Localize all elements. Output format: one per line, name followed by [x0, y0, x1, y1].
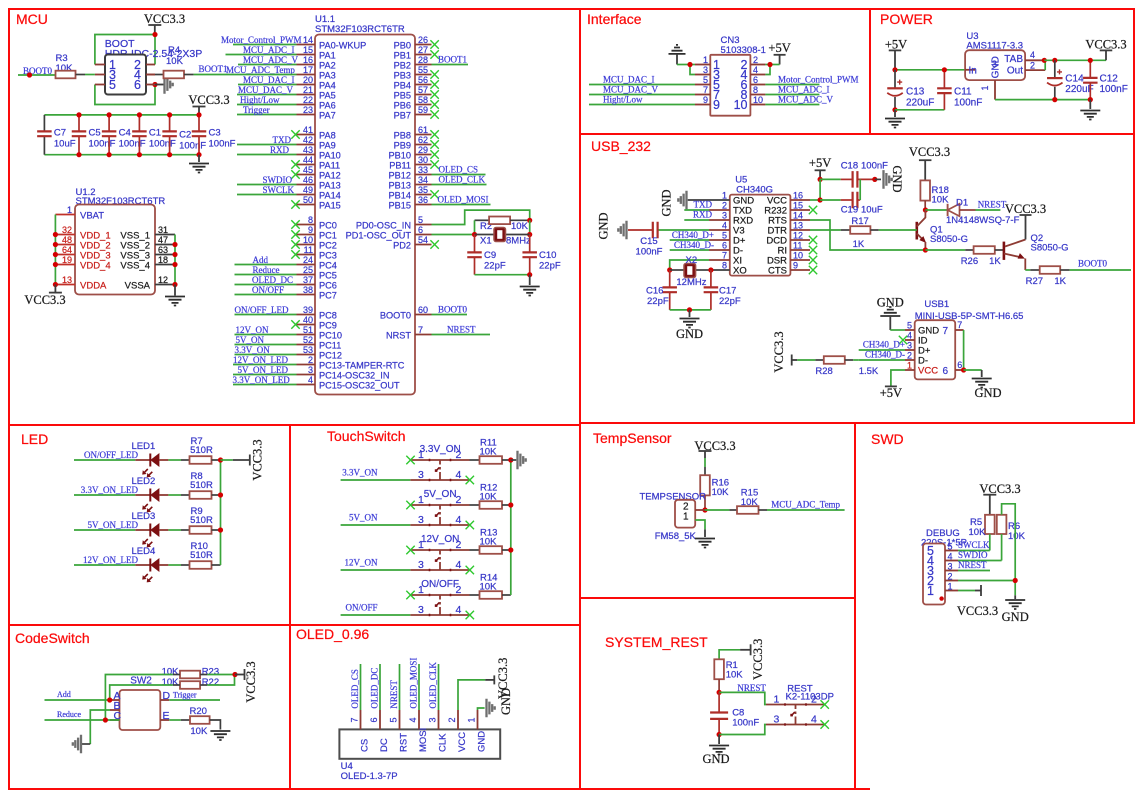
junction R13 — [508, 547, 513, 552]
svg-text:MCU_ADC_I: MCU_ADC_I — [243, 45, 295, 55]
svg-text:+5V: +5V — [880, 386, 902, 400]
svg-text:PB6: PB6 — [394, 101, 411, 111]
svg-text:OLED_CS: OLED_CS — [439, 165, 479, 175]
svg-text:10K: 10K — [480, 492, 498, 503]
svg-text:PB4: PB4 — [394, 81, 411, 91]
svg-text:CLK: CLK — [438, 733, 449, 752]
svg-text:100nF: 100nF — [119, 139, 146, 150]
svg-text:MCU_ADC_Temp: MCU_ADC_Temp — [226, 65, 295, 75]
junction C14 top — [1052, 58, 1057, 63]
svg-text:LED2: LED2 — [132, 476, 156, 487]
svg-text:1: 1 — [774, 694, 780, 706]
svg-text:46: 46 — [303, 175, 313, 185]
U4 pin 6 DC — [379, 710, 381, 729]
resistor R11 10K — [470, 459, 480, 461]
svg-text:PC15-OSC32_OUT: PC15-OSC32_OUT — [319, 381, 400, 391]
svg-text:MCU_DAC_I: MCU_DAC_I — [603, 75, 655, 85]
svg-text:40: 40 — [303, 315, 313, 325]
svg-text:OLED_MOSI: OLED_MOSI — [408, 658, 418, 709]
svg-text:R28: R28 — [815, 366, 832, 377]
svg-text:SWCLK: SWCLK — [958, 540, 990, 550]
wire CN3 +5V to pin2/4 — [765, 64, 779, 66]
U1.1 pin 30 PB11 — [415, 164, 432, 166]
net NREST SWD — [958, 570, 990, 572]
section LED — [9, 425, 290, 625]
junction C5 bottom — [76, 152, 81, 157]
svg-text:C19: C19 — [841, 205, 858, 216]
U5 pin 1 GND — [709, 199, 730, 201]
DEBUG pin 4 — [945, 560, 958, 562]
svg-text:220uF: 220uF — [906, 98, 934, 109]
svg-text:10K: 10K — [932, 195, 950, 206]
svg-text:61: 61 — [418, 125, 428, 135]
svg-text:7: 7 — [943, 326, 949, 337]
svg-text:VCC3.3: VCC3.3 — [24, 293, 65, 307]
svg-text:C9: C9 — [484, 250, 496, 261]
svg-text:OLED_CLK: OLED_CLK — [428, 662, 438, 709]
resistor R14 10K — [470, 594, 480, 596]
wire U1.2 VDD rail — [54, 215, 56, 285]
power VCC3.3 DEBUG pin1 — [980, 585, 982, 596]
U1.1 pin 20 PA4 — [297, 84, 316, 86]
svg-text:PA2: PA2 — [319, 61, 336, 71]
junction C14 bottom — [1052, 97, 1057, 102]
net 12V_ON TouchSwitch — [341, 569, 411, 571]
net OLED_DC U4 — [379, 664, 381, 710]
junction C3 bottom — [196, 152, 201, 157]
svg-text:52: 52 — [303, 335, 313, 345]
IC U4 OLED-1.3-7P — [339, 729, 500, 758]
svg-text:32: 32 — [62, 225, 72, 235]
U5 pin 14 RTS — [790, 219, 810, 221]
svg-text:6: 6 — [722, 241, 727, 251]
net SWCLK — [958, 550, 990, 552]
svg-text:3: 3 — [948, 562, 953, 572]
svg-text:12V_ON: 12V_ON — [236, 325, 269, 335]
svg-text:10K: 10K — [712, 487, 730, 498]
pin1 mark DEBUG — [939, 596, 943, 600]
junction C4 bottom — [107, 152, 112, 157]
resistor R16 10K — [700, 475, 710, 495]
U1.2 pin 47 VSS_2 — [155, 244, 175, 246]
svg-text:Reduce: Reduce — [57, 710, 81, 719]
wire TouchSwitch gnd rail — [510, 460, 512, 595]
no-connect U5 pin 11 — [809, 246, 817, 254]
svg-text:VSSA: VSSA — [125, 281, 151, 292]
svg-text:ON/OFF: ON/OFF — [421, 579, 459, 590]
net CH340_D- — [670, 249, 709, 251]
svg-text:PB14: PB14 — [389, 191, 411, 201]
ground TempSensor — [704, 529, 706, 537]
svg-text:PC2: PC2 — [319, 241, 337, 251]
U5 pin 13 DTR — [790, 229, 810, 231]
U1.1 pin 39 PC8 — [297, 314, 316, 316]
svg-text:PB1: PB1 — [394, 51, 411, 61]
svg-text:1: 1 — [683, 512, 689, 523]
svg-text:35: 35 — [418, 185, 428, 195]
svg-text:CH340_D-: CH340_D- — [674, 240, 714, 250]
net ON/OFF TouchSwitch — [341, 614, 411, 616]
svg-text:7: 7 — [957, 320, 962, 330]
net Trigger — [169, 699, 220, 701]
svg-text:8MHz: 8MHz — [506, 236, 531, 247]
svg-text:10K: 10K — [1008, 531, 1026, 542]
junction VDD rail — [53, 282, 58, 287]
svg-text:3.3V_ON: 3.3V_ON — [235, 345, 271, 355]
svg-text:Add: Add — [253, 255, 269, 265]
svg-text:PA9: PA9 — [319, 141, 336, 151]
wire R2 right to X1 right — [529, 220, 531, 234]
svg-text:PC9: PC9 — [319, 321, 337, 331]
junction VDD rail — [53, 252, 58, 257]
capacitor C15 100nF — [658, 229, 709, 231]
svg-text:VSS_4: VSS_4 — [120, 261, 150, 272]
svg-text:53: 53 — [303, 345, 313, 355]
svg-text:PA0-WKUP: PA0-WKUP — [319, 41, 366, 51]
SW2 pin A — [110, 699, 120, 701]
svg-text:3: 3 — [774, 714, 780, 726]
resistor R5 10K — [985, 515, 995, 534]
resistor R7 510R — [168, 459, 181, 461]
svg-text:5: 5 — [703, 75, 708, 85]
U1.2 pin 19 VDD_4 — [55, 264, 75, 266]
wire R28 to D- — [853, 359, 859, 361]
svg-text:CTS: CTS — [768, 266, 787, 277]
svg-text:PB5: PB5 — [394, 91, 411, 101]
net BOOT0 Q2 — [1070, 269, 1131, 271]
svg-text:K2-1103DP: K2-1103DP — [786, 692, 834, 703]
svg-text:PB9: PB9 — [394, 141, 411, 151]
net OLED_MOSI U4 — [418, 664, 420, 710]
ground arrow U5 pin1 — [688, 199, 709, 201]
junction VDD rail — [53, 232, 58, 237]
svg-text:100nF: 100nF — [209, 139, 236, 150]
U1.1 pin 52 PC11 — [297, 344, 316, 346]
U5 pin 10 DSR — [790, 259, 810, 261]
svg-text:3.3V_ON_LED: 3.3V_ON_LED — [233, 375, 291, 385]
U4 pin 7 CS — [360, 710, 362, 729]
svg-text:ON/OFF: ON/OFF — [252, 285, 284, 295]
junction C1 bottom — [137, 152, 142, 157]
svg-text:C4: C4 — [119, 128, 131, 139]
svg-text:C17: C17 — [719, 286, 736, 297]
svg-text:VCC3.3: VCC3.3 — [251, 439, 265, 480]
svg-text:4: 4 — [948, 552, 953, 562]
U1.1 pin 8 PC0 — [297, 224, 316, 226]
U3 pin 1 GND — [994, 80, 996, 100]
svg-text:RXD: RXD — [270, 145, 290, 155]
wire R6 top to rail — [1002, 504, 1016, 596]
junction U3 In — [972, 67, 977, 72]
svg-text:5V_ON_LED: 5V_ON_LED — [238, 365, 289, 375]
svg-text:4: 4 — [722, 221, 727, 231]
svg-text:51: 51 — [303, 325, 313, 335]
CN3 pin 2 — [750, 64, 765, 66]
U1.1 pin 25 PC5 — [297, 274, 316, 276]
resistor R13 10K — [470, 549, 480, 551]
junction USB1 pin6 — [961, 367, 966, 372]
svg-text:C12: C12 — [1100, 74, 1119, 85]
svg-text:8: 8 — [308, 215, 313, 225]
resistor R20 10K — [169, 719, 181, 721]
net Add — [45, 699, 110, 701]
junction X1 left — [472, 232, 477, 237]
svg-text:POWER: POWER — [880, 11, 933, 27]
U1.1 pin 55 PB3 — [415, 74, 432, 76]
svg-text:510R: 510R — [190, 515, 213, 526]
ground U1.2 — [174, 285, 176, 296]
svg-text:2: 2 — [753, 55, 758, 65]
junction R12 — [508, 502, 513, 507]
wire X1 bottom — [475, 274, 530, 276]
U1.1 pin 35 PB14 — [415, 194, 432, 196]
svg-text:3: 3 — [428, 717, 438, 722]
wire R6 bottom — [1001, 534, 1003, 561]
U1.1 pin 15 PA1 — [297, 54, 316, 56]
resistor R28 1.5K — [815, 359, 823, 361]
svg-text:5: 5 — [948, 542, 953, 552]
svg-text:6: 6 — [753, 75, 758, 85]
svg-text:7: 7 — [418, 325, 423, 335]
svg-text:10K: 10K — [726, 670, 744, 681]
power VCC3.3 U4 — [493, 675, 495, 684]
ground X1 — [529, 275, 531, 285]
net MCU_DAC_V CN3 left — [589, 94, 695, 96]
U1.1 pin 37 PC6 — [297, 284, 316, 286]
svg-text:Reduce: Reduce — [253, 265, 280, 275]
svg-text:PC0: PC0 — [319, 221, 337, 231]
svg-text:C18: C18 — [841, 161, 858, 172]
no-connect U5 pin 15 — [809, 206, 817, 214]
svg-text:GND: GND — [499, 688, 513, 715]
power VCC3.3 LED — [249, 455, 251, 466]
junction C18 right — [872, 177, 877, 182]
svg-text:X2: X2 — [686, 255, 698, 266]
svg-text:VCC3.3: VCC3.3 — [751, 639, 765, 680]
no-connect 5V_ON pin4 — [466, 521, 474, 529]
svg-text:Out: Out — [1007, 65, 1023, 76]
svg-text:5: 5 — [418, 215, 423, 225]
junction +5V C18 — [818, 177, 823, 182]
svg-text:CH340_D-: CH340_D- — [865, 350, 905, 360]
U1.2 pin 18 VSS_4 — [155, 264, 175, 266]
U1.1 pin 10 PC2 — [297, 244, 316, 246]
svg-text:VBAT: VBAT — [80, 211, 104, 222]
U1.1 pin 40 PC9 — [297, 324, 316, 326]
svg-text:PC4: PC4 — [319, 261, 337, 271]
net SWDIO — [958, 560, 1002, 562]
svg-text:PA15: PA15 — [319, 201, 341, 211]
ground arrow SW2 — [73, 735, 81, 754]
svg-text:16: 16 — [793, 191, 803, 201]
svg-text:9: 9 — [713, 98, 720, 112]
svg-text:4: 4 — [456, 469, 462, 481]
svg-text:11: 11 — [793, 241, 802, 251]
svg-text:510R: 510R — [190, 445, 213, 456]
svg-text:R4: R4 — [168, 45, 180, 56]
svg-text:VCC3.3: VCC3.3 — [957, 604, 998, 618]
junction VSS rail — [172, 252, 177, 257]
svg-text:33: 33 — [418, 165, 428, 175]
svg-text:63: 63 — [158, 245, 168, 255]
svg-text:100nF: 100nF — [636, 247, 663, 258]
svg-text:PB13: PB13 — [389, 181, 411, 191]
svg-text:PC6: PC6 — [319, 281, 337, 291]
svg-text:PC8: PC8 — [319, 311, 337, 321]
svg-text:PB8: PB8 — [394, 131, 411, 141]
svg-text:R27: R27 — [1026, 276, 1043, 287]
U1.1 pin 26 PB0 — [415, 44, 432, 46]
svg-text:1: 1 — [948, 582, 953, 592]
U1.1 pin 53 PC12 — [297, 354, 316, 356]
svg-text:MCU_ADC_Temp: MCU_ADC_Temp — [771, 500, 840, 510]
svg-text:Interface: Interface — [587, 11, 642, 27]
junction C5 top — [76, 112, 81, 117]
svg-text:5V_ON: 5V_ON — [236, 335, 265, 345]
resistor R18 10K — [920, 180, 930, 200]
section POWER — [870, 9, 1134, 134]
svg-text:Motor_Control_PWM: Motor_Control_PWM — [221, 35, 302, 45]
U1.1 pin 51 PC10 — [297, 334, 316, 336]
svg-text:PC12: PC12 — [319, 351, 342, 361]
svg-text:23: 23 — [303, 105, 313, 115]
junction VDD rail — [53, 242, 58, 247]
svg-text:9: 9 — [308, 225, 313, 235]
wire BOOT header top loop — [95, 35, 155, 65]
resistor R27 1K — [1025, 269, 1030, 271]
U1.1 pin 4 PC15-OSC32_OUT — [297, 384, 316, 386]
ground arrow C15 — [618, 221, 626, 240]
net MCU_ADC_Temp — [767, 509, 845, 511]
svg-text:VCC3.3: VCC3.3 — [1005, 202, 1046, 216]
net Hight/Low CN3 left — [589, 104, 695, 106]
junction R16 TEMPSENSOR — [702, 507, 707, 512]
svg-text:PC11: PC11 — [319, 341, 341, 351]
U4 pin 3 CLK — [438, 710, 440, 729]
section SYSTEM_REST — [580, 598, 855, 789]
junction X1 ground — [527, 272, 532, 277]
svg-text:PB10: PB10 — [389, 151, 411, 161]
DEBUG pin 5 — [945, 550, 958, 552]
svg-text:R23: R23 — [202, 667, 219, 678]
svg-text:TXD: TXD — [273, 135, 292, 145]
svg-text:X1: X1 — [480, 236, 492, 247]
svg-text:27: 27 — [418, 45, 428, 55]
svg-text:+5V: +5V — [809, 156, 831, 170]
junction C13 — [892, 67, 897, 72]
svg-text:10K: 10K — [480, 537, 498, 548]
svg-text:13: 13 — [62, 275, 72, 285]
ground C13 — [894, 110, 896, 117]
svg-text:2: 2 — [722, 201, 727, 211]
U1.1 pin 56 PB4 — [415, 84, 432, 86]
svg-text:TempSensor: TempSensor — [593, 430, 672, 446]
svg-text:PA1: PA1 — [319, 51, 336, 61]
U1.1 pin 22 PA6 — [297, 104, 316, 106]
U1.1 pin 11 PC3 — [297, 254, 316, 256]
svg-text:PB12: PB12 — [389, 171, 411, 181]
svg-text:26: 26 — [418, 35, 428, 45]
svg-text:1.5K: 1.5K — [859, 366, 879, 377]
svg-text:10K: 10K — [162, 667, 180, 678]
svg-text:GND: GND — [991, 56, 1002, 78]
svg-text:14: 14 — [793, 211, 803, 221]
svg-text:60: 60 — [418, 305, 428, 315]
U5 pin 9 CTS — [790, 269, 810, 271]
svg-text:2: 2 — [456, 494, 462, 506]
U1.1 pin 9 PC1 — [297, 234, 316, 236]
svg-text:5: 5 — [389, 717, 399, 722]
svg-text:OLED_MOSI: OLED_MOSI — [438, 195, 489, 205]
svg-text:510R: 510R — [190, 550, 213, 561]
U1.2 pin 13 VDDA — [55, 284, 75, 286]
junction C13 bottom — [892, 107, 897, 112]
wire R2 left to X1 — [474, 220, 476, 234]
wire U4 VCC to VCC3.3 — [458, 680, 485, 710]
resistor R10 510R — [168, 564, 181, 566]
svg-text:BOOT0: BOOT0 — [380, 311, 411, 321]
section Interface — [580, 9, 870, 134]
svg-text:41: 41 — [303, 125, 313, 135]
no-connect REST pin2 — [821, 700, 829, 708]
svg-text:2: 2 — [1030, 61, 1035, 71]
svg-text:Trigger: Trigger — [173, 691, 197, 700]
svg-text:OLED_CLK: OLED_CLK — [439, 175, 486, 185]
junction Q1 emitter — [923, 247, 928, 252]
svg-text:TouchSwitch: TouchSwitch — [327, 428, 406, 444]
svg-text:22pF: 22pF — [719, 296, 741, 307]
wire R22 to pin A — [207, 675, 234, 686]
svg-text:14: 14 — [303, 35, 313, 45]
svg-text:C1: C1 — [149, 128, 161, 139]
svg-text:3: 3 — [722, 211, 727, 221]
net ON/OFF_LED — [74, 459, 135, 461]
svg-text:LED: LED — [21, 431, 48, 447]
U1.1 pin 28 PB2 — [415, 64, 432, 66]
junction CN3 pin1 — [687, 62, 692, 67]
ground USB1 shield — [964, 369, 982, 371]
wire U4 GND to ground — [478, 708, 485, 710]
svg-text:1: 1 — [927, 584, 934, 598]
resistor R12 10K — [470, 504, 480, 506]
svg-text:VCC3.3: VCC3.3 — [144, 12, 185, 26]
wire CN3 gnd to pin1/3 — [677, 64, 690, 66]
U1.1 pin 6 PD1-OSC_OUT — [415, 234, 432, 236]
BOOT pin 3 — [95, 74, 105, 76]
svg-text:Motor_Control_PWM: Motor_Control_PWM — [778, 75, 859, 85]
svg-text:PC3: PC3 — [319, 251, 337, 261]
wire C13 bottom to C11 — [895, 109, 944, 111]
svg-text:21: 21 — [303, 85, 313, 95]
wire emitter rail to R26 — [925, 249, 965, 251]
capacitor C8 100nF — [718, 692, 720, 712]
U1.1 pin 2 PC13-TAMPER-RTC — [297, 364, 316, 366]
U1.1 pin 61 PB8 — [415, 134, 432, 136]
svg-text:220uF: 220uF — [1065, 84, 1093, 95]
svg-text:Trigger: Trigger — [243, 105, 270, 115]
svg-text:S8050-G: S8050-G — [930, 234, 968, 245]
CN3 pin 7 — [695, 94, 710, 96]
svg-text:OLED_CS: OLED_CS — [350, 669, 360, 709]
svg-text:PC1: PC1 — [319, 231, 337, 241]
ground arrow at BOOT pin6 — [155, 84, 164, 86]
svg-text:2: 2 — [308, 355, 313, 365]
svg-text:PD1-OSC_OUT: PD1-OSC_OUT — [346, 231, 412, 241]
wire DEBUG pin1 to VCC3.3 — [958, 590, 975, 592]
junction VCC3.3/BOOT — [152, 32, 157, 37]
svg-text:GND: GND — [660, 189, 674, 216]
no-connect ON/OFF pin4 — [466, 611, 474, 619]
